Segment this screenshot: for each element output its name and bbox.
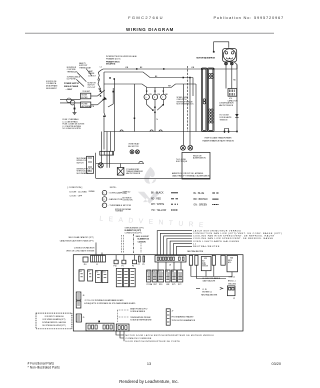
svg-text:NEUTRAL/NEUTRE: NEUTRAL/NEUTRE — [201, 293, 218, 296]
relay component hatched — [117, 164, 124, 176]
svg-text:BROIL: BROIL — [228, 260, 232, 262]
wire mid horizontal — [96, 163, 144, 165]
label #9 to lock interface — [84, 299, 136, 305]
svg-text:N 1 LIGNE DE SORTIE: N 1 LIGNE DE SORTIE — [63, 128, 82, 130]
svg-text:TENSION: TENSION — [220, 120, 229, 122]
legend condition block — [68, 187, 88, 198]
svg-text:: FAN MOTOR: : FAN MOTOR — [108, 198, 123, 201]
magnetron body bracket — [223, 49, 237, 62]
svg-text:YW : YELLOW: YW : YELLOW — [151, 210, 167, 212]
svg-text:K2: K2 — [231, 257, 233, 259]
leader lines from labels to board — [96, 234, 141, 255]
svg-text:L: L — [104, 193, 105, 195]
svg-text:A PLAQUETTE D INTERFACE DE UTI: A PLAQUETTE D INTERFACE DE UTIL/DAVEUR/B… — [84, 302, 136, 305]
bus junction dots and labels — [136, 68, 138, 70]
svg-text:K5: K5 — [96, 272, 98, 274]
wires magnetron terminals down — [226, 62, 237, 132]
svg-text:COOK : OFF: COOK : OFF — [70, 196, 83, 198]
svg-text:#8 DOWN TO ENGLISH: #8 DOWN TO ENGLISH — [45, 316, 65, 318]
svg-text:THERMIQUE: THERMIQUE — [67, 71, 78, 73]
svg-text:P1: P1 — [122, 266, 124, 268]
label connecting wire — [172, 172, 211, 178]
high voltage capacitor C1 — [228, 89, 237, 97]
junction dot monitor wire — [112, 91, 114, 93]
wire magnetron top loop — [214, 42, 229, 52]
pins P7 P5 — [139, 256, 141, 262]
color code sample dashes left — [171, 193, 178, 210]
svg-text:VITESSE: VITESSE — [202, 266, 208, 268]
label broil grilling — [228, 281, 237, 286]
wire bus2 to cavity left — [103, 72, 105, 84]
motor feed arrowheads — [146, 91, 148, 93]
svg-text:TETE DE PROGRAMMATION: TETE DE PROGRAMMATION — [172, 319, 196, 322]
junction dot left drop — [103, 116, 105, 118]
label lamp thermal cutout — [88, 70, 97, 77]
label thermostat transformateur — [126, 168, 144, 175]
J8 to relay row stubs — [158, 262, 181, 270]
transformer secondary coil bumps — [208, 109, 213, 123]
label fuse electrique — [176, 159, 188, 163]
svg-text:SYS-SET: SYS-SET — [83, 91, 91, 93]
svg-text:H.V. DIODE: H.V. DIODE — [220, 114, 230, 116]
leader lines under board — [116, 331, 124, 341]
svg-text:J1: J1 — [96, 264, 98, 266]
svg-text:GAUT/GAUCHE: GAUT/GAUCHE — [202, 280, 216, 283]
noise filter box NF lower — [81, 102, 91, 108]
svg-text:HAUTE TENSION: HAUTE TENSION — [126, 172, 141, 175]
svg-text:P10: P10 — [114, 266, 117, 268]
transformer primary coil bumps — [203, 99, 205, 104]
svg-text:[ CONDITION ]: [ CONDITION ] — [68, 187, 83, 189]
svg-text:MOTOR INTERLOCK: MOTOR INTERLOCK — [177, 104, 195, 106]
thermal cutout on bottom bus — [225, 129, 229, 134]
svg-text:K11: K11 — [103, 272, 106, 274]
svg-text:MEAT PROBE (OPT)/: MEAT PROBE (OPT)/ — [130, 307, 148, 310]
svg-text:NOTE :: NOTE : — [110, 187, 118, 189]
wire cavity top rail — [104, 84, 196, 88]
svg-text:VENT. DE CONV. HAUTE VITESSE: VENT. DE CONV. HAUTE VITESSE — [66, 250, 95, 253]
wire bottom bus L1B — [104, 131, 237, 133]
svg-text:OVEN LIGHT/LAMPE HALOGENE: OVEN LIGHT/LAMPE HALOGENE — [193, 240, 240, 243]
svg-text:: TURNTABLE MOTOR: : TURNTABLE MOTOR — [108, 204, 131, 207]
wire second bus — [104, 72, 193, 78]
legend fan motor row — [102, 197, 132, 202]
wire right verticals — [183, 78, 193, 146]
ground wire from plug — [73, 105, 77, 115]
wire from noise filter to interlock — [91, 90, 105, 105]
relay K2 — [227, 256, 238, 272]
svg-text:03/20: 03/20 — [271, 362, 281, 366]
label programming header — [172, 316, 196, 323]
high voltage diode D1 — [235, 114, 238, 117]
svg-text:COOLING FAN HIGH SPEED/VENT. D: COOLING FAN HIGH SPEED/VENT. DE REFROID.… — [193, 235, 275, 238]
label l1 in — [202, 289, 212, 293]
junction dots on second bus — [109, 77, 111, 79]
svg-text:CABLE PAR OPT TERMINAL D ALIME: CABLE PAR OPT TERMINAL D ALIMENTATION — [172, 175, 211, 178]
svg-text:CONVECTION FAN HIGH: CONVECTION FAN HIGH — [74, 247, 95, 250]
cavity right edge — [195, 84, 197, 132]
junction dots bottom bus — [224, 131, 226, 133]
dashed option box — [36, 313, 72, 329]
label safety support thermostat — [79, 62, 92, 69]
label monitoring coupling thermostat — [67, 67, 78, 73]
label convection fan high — [66, 247, 95, 253]
small arrows — [196, 287, 223, 289]
magnetron terminal FA — [225, 62, 228, 65]
svg-text:: OVEN LAMP: : OVEN LAMP — [108, 192, 123, 195]
label bake element — [136, 235, 150, 243]
svg-text:TRANSFORMATEUR HAUTE TENSION: TRANSFORMATEUR HAUTE TENSION — [202, 139, 234, 142]
transformer filament winding — [208, 73, 213, 78]
noise filter box NF upper — [81, 93, 91, 99]
wires under relays — [191, 265, 232, 278]
junction dots under motors — [154, 107, 156, 109]
left interlock vertical wire — [113, 80, 115, 152]
svg-text:J6: J6 — [83, 295, 85, 297]
label self clean catalyst — [60, 236, 94, 242]
label secondary interlock switch — [77, 157, 89, 164]
svg-text:MOTOR DOOR LATCH SWITCH/INTERR: MOTOR DOOR LATCH SWITCH/INTERRUPTEUR DE … — [126, 334, 215, 337]
relay K1 — [201, 257, 211, 271]
svg-text:NEUTRAL/NEUTRE: NEUTRAL/NEUTRE — [187, 250, 204, 253]
turntable motor circle T — [161, 94, 166, 99]
legend oven lamp row — [102, 190, 130, 195]
svg-text:SECONDAIRE: SECONDAIRE — [77, 172, 89, 175]
label surveillance du filtre — [67, 75, 81, 80]
wire bottom long — [96, 177, 210, 179]
svg-text:PRIMAIRE (DOIT): PRIMAIRE (DOIT) — [106, 57, 121, 60]
svg-text:F: F — [104, 199, 105, 201]
svg-text:13: 13 — [147, 362, 151, 366]
svg-text:J2: J2 — [233, 298, 235, 300]
svg-text:COM L1: COM L1 — [229, 276, 236, 278]
label interrupteur de verrouillage primaire — [106, 55, 138, 60]
high voltage transformer T1 secondary — [208, 68, 215, 132]
label speed oven interlock — [177, 97, 195, 106]
label power supply single phase only — [64, 83, 80, 91]
oven lamp L drops — [135, 84, 164, 132]
left edge connector C — [76, 314, 81, 322]
svg-text:BL : BLUE: BL : BLUE — [194, 193, 205, 195]
svg-text:OVEN ELEMENT (OPT): OVEN ELEMENT (OPT) — [125, 227, 144, 229]
primary interlock switch S1 — [98, 69, 103, 93]
svg-text:THERMOSTAT: THERMOSTAT — [79, 66, 92, 69]
svg-text:RD : RED: RD : RED — [151, 199, 161, 201]
dashed option boundary line — [186, 66, 188, 132]
svg-text:DU FILTRE: DU FILTRE — [67, 79, 77, 81]
bottom connector J4 — [116, 324, 129, 331]
svg-text:L1: L1 — [100, 67, 102, 69]
board mid boxes K13 K10 PC5 — [147, 270, 177, 282]
left edge connector A — [76, 292, 81, 300]
wire left drop — [104, 84, 106, 132]
svg-text:ENTREE L1: ENTREE L1 — [202, 292, 212, 294]
connector J1 strip — [91, 256, 106, 267]
svg-text:RD7: RD7 — [154, 284, 158, 286]
board top pin headers — [114, 255, 187, 268]
label oven relay — [128, 143, 140, 148]
svg-text:P7: P7 — [138, 264, 140, 266]
svg-text:LN8: LN8 — [166, 284, 169, 286]
svg-text:BLK MOTOR: BLK MOTOR — [128, 146, 139, 148]
connector strip vertical stubs — [102, 132, 111, 168]
dotted leaders meat probe — [118, 310, 130, 323]
magnetron terminal F — [230, 62, 233, 65]
svg-text:RD1: RD1 — [159, 284, 163, 286]
mid box inner text lines — [147, 273, 182, 280]
color code BK BLACK — [151, 192, 167, 212]
svg-text:MOTEUR DE: MOTEUR DE — [123, 198, 132, 200]
magnetron circle — [223, 49, 235, 61]
labels right connector stack — [193, 229, 282, 248]
fuse circle-x right pair — [181, 145, 193, 150]
connector J8 — [155, 256, 186, 263]
svg-text:DOOR SWITCH/INTERRUPTEUR DE PO: DOOR SWITCH/INTERRUPTEUR DE PORTE — [126, 341, 181, 343]
monitor switch vertical wire — [108, 88, 113, 107]
fuse component right — [227, 286, 235, 300]
label fuse thermal block — [63, 118, 86, 130]
svg-text:POWER SUPPLY: POWER SUPPLY — [64, 83, 80, 85]
svg-text:J5: J5 — [83, 317, 85, 319]
svg-text:CUISSON: CUISSON — [138, 241, 147, 243]
magnetron filament loops — [225, 52, 234, 60]
svg-text:J7: J7 — [172, 311, 174, 313]
svg-text:CONVECTION FAN LOW (OPT)/VENT.: CONVECTION FAN LOW (OPT)/VENT. DE CONV. … — [193, 232, 282, 235]
svg-text:ANTIPARASITE: ANTIPARASITE — [82, 105, 95, 108]
svg-text:CATALYSEUR DAUTONETTOYAGE (OPT: CATALYSEUR DAUTONETTOYAGE (OPT) — [60, 240, 94, 243]
header rule — [25, 32, 274, 34]
power supply cord plug P1 — [60, 98, 81, 105]
svg-text:MOTOR MAGNETRON: MOTOR MAGNETRON — [197, 57, 216, 60]
wire top bus L1B — [103, 68, 237, 70]
svg-text:K7: K7 — [88, 271, 90, 273]
label oven element opt — [125, 227, 144, 234]
oven control board outline — [73, 255, 243, 331]
svg-text:SW (DPDT): SW (DPDT) — [106, 64, 116, 66]
color code BL BLUE column — [194, 193, 208, 207]
board tall component boxes A1 A2 A3 — [116, 268, 135, 286]
svg-text:SWITCH: SWITCH — [77, 162, 85, 164]
svg-text:LATCH MOTOR/MOTEUR VERROU: LATCH MOTOR/MOTEUR VERROU — [193, 229, 241, 232]
svg-text:WH : WHITE: WH : WHITE — [151, 204, 165, 206]
label monitor switch — [88, 82, 97, 88]
label hv diode — [220, 114, 233, 121]
svg-text:AMENITE DE CIRCUIT DE L APPARE: AMENITE DE CIRCUIT DE L APPAREIL — [172, 172, 203, 175]
svg-text:L: L — [146, 97, 147, 99]
svg-text:WIRING DIAGRAM: WIRING DIAGRAM — [126, 27, 174, 32]
svg-text:ALIMENTATION: ALIMENTATION — [193, 157, 206, 160]
svg-text:DE VITESSE DE VENT(OPT): DE VITESSE DE VENT(OPT) — [42, 325, 66, 327]
nested L wires to label stack — [157, 231, 192, 255]
wire left column down — [96, 132, 104, 179]
board top small connectors right — [189, 255, 192, 265]
oven lamp circle L — [144, 94, 149, 99]
thermostat bump on wire — [139, 161, 143, 163]
svg-text:CUT-OUT: CUT-OUT — [88, 75, 97, 77]
oven relay circle-x pair — [130, 150, 139, 154]
label relay de alimentation — [193, 154, 206, 159]
svg-text:FILTER: FILTER — [82, 97, 89, 99]
svg-text:SELF CLEAN CATALYST (OPT): SELF CLEAN CATALYST (OPT) — [68, 236, 93, 239]
svg-text:K6: K6 — [80, 271, 82, 273]
svg-text:~ ONLY: ~ ONLY — [66, 89, 73, 91]
junction dots on collector — [152, 109, 154, 111]
junction dot at ground branch — [74, 108, 76, 110]
svg-text:BAKE ELEMENT: BAKE ELEMENT — [136, 235, 150, 238]
labels under board — [126, 334, 215, 343]
connector strip CN-A — [100, 151, 114, 155]
label down to english — [42, 316, 67, 327]
svg-text:RY2: RY2 — [178, 284, 181, 286]
svg-text:CONV: CONV — [202, 264, 206, 266]
svg-text:SONDE A TEMPERATURE: SONDE A TEMPERATURE — [130, 318, 152, 321]
svg-text:CONVECTION: CONVECTION — [123, 200, 133, 202]
svg-text:NEUTRAL/NEUTRE: NEUTRAL/NEUTRE — [193, 245, 220, 248]
svg-text:GN : GREEN: GN : GREEN — [194, 204, 208, 206]
fan motor circle F — [152, 94, 157, 99]
watermark leadventure logo flame — [138, 167, 161, 204]
svg-text:K1: K1 — [205, 258, 207, 260]
labels under mid boxes — [147, 283, 182, 286]
svg-text:DOWN A REFROID. GAUCHE: DOWN A REFROID. GAUCHE — [42, 321, 67, 324]
svg-text:TEMPERATURE PROBE/: TEMPERATURE PROBE/ — [130, 316, 151, 319]
wire hop symbols on bottom bus — [120, 130, 162, 132]
svg-text:CUT-OUT: CUT-OUT — [88, 87, 97, 89]
monitor switch arrow — [104, 97, 108, 100]
leader lines from labels — [76, 69, 92, 87]
left edge connector B — [76, 301, 81, 308]
svg-text:F: F — [154, 97, 155, 99]
svg-text:* Non-Illustrated Parts: * Non-Illustrated Parts — [28, 366, 61, 370]
svg-text:J8: J8 — [169, 264, 171, 266]
board relay row K6 K7 — [79, 270, 108, 283]
high voltage transformer T1 primary — [202, 68, 208, 132]
svg-text:COOLING FAN LOW SPEED/VENT. DE: COOLING FAN LOW SPEED/VENT. DE REFROID. … — [193, 237, 274, 240]
svg-text:Rendered by LeadVenture, Inc.: Rendered by LeadVenture, Inc. — [119, 379, 178, 384]
svg-text:SONDE A VIANDE: SONDE A VIANDE — [130, 310, 146, 313]
svg-text:SINGLE PHASE: SINGLE PHASE — [64, 85, 79, 88]
connector J10 — [83, 257, 88, 262]
meat probe labels — [130, 307, 152, 321]
programming header J7 — [166, 309, 173, 325]
thermostat circle-x left — [98, 163, 103, 168]
svg-text:HIGH VOLTAGE TRANSFORMER: HIGH VOLTAGE TRANSFORMER — [205, 137, 233, 140]
label cote bande — [202, 277, 220, 282]
svg-text:FERMEE: FERMEE — [89, 191, 95, 193]
svg-text:P4: P4 — [132, 266, 134, 268]
svg-text:FOR SPEED BOARDS(OPT): FOR SPEED BOARDS(OPT) — [43, 318, 66, 321]
legend turntable motor row — [102, 203, 131, 213]
junction dot primary interlock — [100, 90, 102, 92]
svg-text:BR : BROWN: BR : BROWN — [194, 199, 208, 201]
bottom connector strip J11 — [86, 321, 114, 331]
power relay box — [182, 152, 210, 179]
svg-text:COMMON/COMMUNE: COMMON/COMMUNE — [126, 338, 152, 340]
svg-text:GRILLING: GRILLING — [228, 283, 237, 285]
svg-text:BLK: BLK — [202, 261, 205, 263]
svg-text:SEULEMENT: SEULEMENT — [46, 88, 58, 90]
board mid box extra — [178, 270, 183, 282]
svg-text:HAUTE TENSION: HAUTE TENSION — [219, 104, 234, 107]
svg-text:PROGRAMMING HEADER/: PROGRAMMING HEADER/ — [172, 316, 194, 319]
svg-text:RY18A: RY18A — [147, 283, 153, 286]
svg-text:#9 TO LOCK INTERFACE BOARD/BAN: #9 TO LOCK INTERFACE BOARD/BAND BOARD — [84, 299, 124, 302]
svg-text:BROIL L1: BROIL L1 — [228, 281, 236, 283]
svg-text:RY5: RY5 — [172, 284, 175, 286]
svg-text:Publication No: 5995720967: Publication No: 5995720967 — [213, 15, 284, 20]
svg-text:J10: J10 — [84, 264, 87, 266]
junction dot magnetron wire — [213, 51, 215, 53]
color code sample dashes right — [212, 193, 218, 205]
svg-text:BK : BLACK: BK : BLACK — [151, 192, 164, 195]
label hv capacitor — [219, 98, 238, 107]
secondary interlock switch S2 — [87, 156, 94, 173]
svg-text:FGMC2766U: FGMC2766U — [128, 15, 164, 20]
svg-text:P5: P5 — [142, 264, 144, 266]
label source de courant — [46, 81, 58, 90]
svg-text:DOOR : CLOSED: DOOR : CLOSED — [70, 191, 88, 193]
